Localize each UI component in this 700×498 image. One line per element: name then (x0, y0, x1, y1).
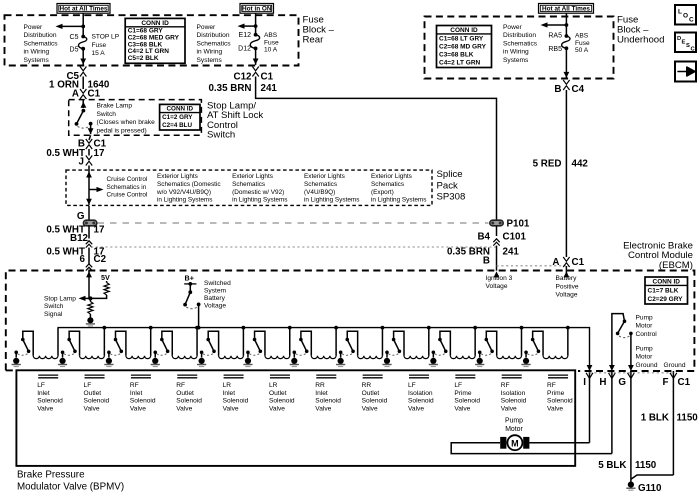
svg-text:A: A (72, 89, 79, 100)
solenoid coil L12 (RF prime) (543, 356, 568, 359)
svg-text:A: A (552, 257, 559, 268)
svg-text:5 RED: 5 RED (533, 159, 562, 170)
svg-text:LR: LR (269, 382, 278, 389)
svg-text:E: E (682, 40, 686, 46)
svg-text:B: B (554, 84, 561, 95)
svg-text:M: M (511, 439, 519, 449)
pump motor control switch S3 (612, 314, 633, 366)
svg-text:F: F (663, 377, 669, 388)
valve symbol LR inlet (224, 374, 244, 376)
svg-text:RF: RF (176, 382, 185, 389)
svg-text:Power: Power (197, 24, 216, 31)
solenoid driver switch Q10 (LF prime) (432, 331, 451, 357)
ground (solenoid RR outlet) (338, 358, 344, 364)
wire 5 RED 442 (565, 90, 567, 257)
wire below P101 (496, 226, 498, 236)
svg-text:RF: RF (501, 382, 510, 389)
svg-text:Pump: Pump (505, 418, 523, 425)
svg-text:C5=2 BLK: C5=2 BLK (128, 55, 159, 62)
fuse F3 value label (575, 33, 590, 55)
svg-text:Distribution: Distribution (503, 32, 536, 39)
solenoid coil L7 (RR inlet) (311, 356, 336, 359)
bus junction node (334, 326, 338, 330)
wire to splice G (88, 206, 90, 220)
svg-text:Outlet: Outlet (84, 390, 102, 397)
valve symbol LR outlet (270, 374, 290, 376)
pump motor label (505, 418, 524, 433)
svg-text:Prime: Prime (547, 390, 565, 397)
svg-text:Distribution: Distribution (24, 32, 57, 39)
wire entering EBCM pin 6 C2 (88, 271, 90, 299)
connector break C12 / C1 (252, 67, 258, 77)
svg-text:Isolation: Isolation (501, 390, 526, 397)
arrow to power distribution schematics (rear right) (242, 25, 256, 27)
svg-text:Valve: Valve (408, 406, 424, 413)
svg-text:in Wiring: in Wiring (503, 49, 529, 56)
valve label RF Inlet Solenoid Valve (130, 382, 156, 412)
svg-text:Systems: Systems (503, 57, 529, 64)
svg-text:Inlet: Inlet (37, 390, 50, 397)
wire 0.35 BRN 241 (upper) (256, 77, 497, 220)
svg-text:Switched: Switched (204, 280, 231, 287)
pull-up resistor R1 (106, 281, 108, 283)
splice pack SP308 label (437, 169, 466, 203)
solenoid coil L4 (RF outlet) (172, 356, 197, 359)
wire fuse to box edge with arrow (82, 49, 84, 65)
svg-text:RR: RR (362, 382, 372, 389)
conn id table stop lamp switch (160, 104, 200, 130)
valve label LF Prime Solenoid Valve (454, 382, 480, 412)
svg-text:C1=7 BLK: C1=7 BLK (648, 288, 679, 295)
solenoid coil L9 (LF isolation) (404, 356, 429, 359)
bus junction node (473, 326, 477, 330)
svg-text:Positive: Positive (556, 283, 579, 290)
ignition 3 voltage label (486, 275, 513, 290)
solenoid driver switch Q3 (RF inlet) (107, 331, 126, 357)
svg-text:CONN ID: CONN ID (653, 278, 681, 285)
svg-text:P101: P101 (507, 219, 530, 230)
svg-text:Exterior Lights: Exterior Lights (232, 173, 273, 180)
svg-text:Modulator Valve (BPMV): Modulator Valve (BPMV) (17, 482, 124, 493)
svg-text:Motor: Motor (636, 323, 654, 330)
wire G pump motor ground (inside EBCM) (630, 333, 632, 366)
pump motor M1 (500, 435, 529, 450)
BPMV box (16, 370, 575, 466)
wire into brake lamp switch (82, 99, 84, 108)
svg-text:D12: D12 (238, 46, 251, 53)
svg-text:Exterior Lights: Exterior Lights (157, 173, 198, 180)
arrow to power distribution (underhood) (545, 24, 566, 26)
svg-text:Power: Power (503, 24, 522, 31)
svg-text:(EBCM): (EBCM) (659, 260, 693, 271)
cruise control schematics text (107, 176, 148, 199)
svg-text:Schematics: Schematics (232, 181, 265, 188)
wire fuse F3 to box edge (565, 48, 567, 78)
wire from hot in ON to fuse E12 (255, 13, 257, 34)
svg-text:Solenoid: Solenoid (408, 398, 434, 405)
svg-text:B: B (483, 255, 490, 266)
valve symbol RR inlet (316, 374, 336, 376)
solenoid driver switch Q1 (LF inlet) (14, 331, 33, 357)
svg-text:17: 17 (94, 225, 105, 236)
svg-text:O: O (683, 13, 688, 20)
solenoid driver switch Q2 (LF outlet) (61, 331, 80, 357)
arrow to power distribution schematics (60, 25, 83, 27)
solenoid coil L11 (RF isolation) (497, 356, 522, 359)
conn id table EBCM (645, 277, 688, 304)
svg-text:RA5: RA5 (548, 33, 562, 40)
svg-text:B12: B12 (70, 233, 89, 244)
connector break 6/C2 (86, 264, 92, 271)
wire hot to fuse RA5 (565, 13, 567, 36)
solenoid coil L3 (RF inlet) (126, 356, 151, 359)
ground (solenoid RF isolation) (477, 358, 483, 364)
svg-text:in Wiring: in Wiring (197, 49, 223, 56)
svg-text:I: I (583, 377, 586, 388)
power distribution reference text (underhood) (503, 24, 538, 64)
svg-text:CONN ID: CONN ID (141, 20, 169, 27)
svg-text:241: 241 (503, 247, 520, 258)
connector break A / C1 (563, 257, 569, 267)
svg-text:Splice: Splice (437, 169, 463, 180)
svg-text:Valve: Valve (362, 406, 378, 413)
solenoid driver switch Q5 (LR inlet) (200, 331, 219, 357)
ground (solenoid LF outlet) (59, 358, 65, 364)
svg-text:Switch: Switch (44, 303, 64, 310)
svg-text:Schematics (Domestic: Schematics (Domestic (157, 181, 221, 188)
svg-text:Schematics: Schematics (24, 40, 59, 47)
bus junction node (195, 326, 199, 330)
svg-text:LF: LF (454, 382, 462, 389)
ground (solenoid LR inlet) (199, 358, 205, 364)
switched battery switch S2 (183, 282, 200, 328)
battery positive voltage label (556, 275, 579, 298)
node branch to power distribution (81, 25, 85, 29)
svg-text:Valve: Valve (547, 406, 563, 413)
svg-text:1150: 1150 (635, 460, 657, 471)
ground G110 (628, 482, 634, 488)
svg-text:Outlet: Outlet (362, 390, 380, 397)
bus junction node (102, 326, 106, 330)
svg-text:Outlet: Outlet (176, 390, 194, 397)
solenoid driver switch Q6 (LR outlet) (246, 331, 265, 357)
valve label LF Outlet Solenoid Valve (84, 382, 110, 412)
svg-text:Pump: Pump (636, 314, 654, 321)
svg-text:Valve: Valve (269, 406, 285, 413)
svg-text:50 A: 50 A (575, 47, 589, 54)
svg-text:5 BLK: 5 BLK (598, 460, 626, 471)
EBCM dashed border (6, 271, 695, 372)
node branch (254, 24, 258, 28)
svg-text:Valve: Valve (223, 406, 239, 413)
wire through splice box (88, 174, 90, 205)
svg-text:G110: G110 (638, 483, 662, 493)
wire F joins G wire (631, 475, 674, 479)
solenoid coil L2 (LF outlet) (80, 356, 105, 359)
svg-text:Valve: Valve (84, 406, 100, 413)
connector break pin H (611, 371, 613, 454)
svg-text:Schematics: Schematics (371, 181, 404, 188)
connector break C5 (80, 67, 86, 77)
svg-text:Ground: Ground (664, 362, 686, 369)
ground (solenoid LF inlet) (13, 358, 19, 364)
svg-text:Battery: Battery (556, 275, 578, 282)
fuse F2 ABS 10A (250, 33, 259, 51)
exterior lights schematics text 3 (304, 173, 359, 203)
svg-text:C101: C101 (503, 232, 527, 243)
bus junction node (381, 326, 385, 330)
svg-text:Distribution: Distribution (197, 32, 230, 39)
hot at all times label (underhood) (539, 4, 594, 14)
valve label LR Inlet Solenoid Valve (223, 382, 249, 412)
bus junction node (242, 326, 246, 330)
LOC icon (675, 5, 696, 25)
svg-text:6: 6 (80, 254, 86, 265)
fuse F2 value label (264, 32, 279, 54)
svg-text:Underhood: Underhood (617, 35, 664, 46)
svg-text:D5: D5 (70, 47, 79, 54)
svg-text:Exterior Lights: Exterior Lights (304, 173, 345, 180)
brake pressure modulator valve label (17, 470, 124, 493)
valve label LR Outlet Solenoid Valve (269, 382, 295, 412)
bus junction node (520, 326, 524, 330)
bus junction node (427, 326, 431, 330)
svg-text:Voltage: Voltage (486, 283, 508, 290)
svg-text:in Lighting Systems: in Lighting Systems (157, 197, 212, 204)
wire entering EBCM battery pin A (565, 266, 567, 277)
svg-text:5V: 5V (101, 273, 110, 282)
svg-text:CONN ID: CONN ID (167, 106, 194, 113)
svg-text:Battery: Battery (204, 295, 226, 302)
svg-text:Fuse: Fuse (575, 40, 590, 47)
svg-text:C4=2 LT GRN: C4=2 LT GRN (439, 59, 481, 66)
svg-text:C1: C1 (678, 377, 691, 388)
pump motor control text (636, 314, 658, 338)
svg-text:Control: Control (636, 331, 658, 338)
wire motor to pin I (529, 442, 589, 444)
svg-text:Solenoid: Solenoid (37, 398, 63, 405)
stop lamp / AT shift lock control switch label (207, 101, 263, 141)
svg-text:G: G (618, 377, 626, 388)
svg-text:Valve: Valve (37, 406, 53, 413)
valve label RR Outlet Solenoid Valve (362, 382, 388, 412)
fuse F1 STOP LP 15A (78, 35, 86, 51)
svg-text:Brake Lamp: Brake Lamp (97, 103, 133, 110)
valve label RF Outlet Solenoid Valve (176, 382, 202, 412)
ground (solenoid LF isolation) (384, 358, 390, 364)
valve symbol RF prime (548, 374, 568, 376)
connector break B / C4 (563, 80, 569, 90)
svg-text:Signal: Signal (44, 311, 63, 318)
DESC icon (675, 33, 696, 53)
ground (solenoid RR inlet) (291, 358, 297, 364)
svg-text:Systems: Systems (197, 57, 223, 64)
svg-text:C2=68 MD GRY: C2=68 MD GRY (439, 44, 487, 51)
svg-text:Schematics in: Schematics in (107, 184, 147, 191)
svg-text:Brake Pressure: Brake Pressure (17, 470, 85, 481)
solenoid driver switch Q8 (RR outlet) (339, 331, 358, 357)
svg-text:Solenoid: Solenoid (269, 398, 295, 405)
valve label LF Isolation Solenoid Valve (408, 382, 434, 412)
wire entering EBCM ignition pin B (494, 271, 500, 277)
ground (solenoid RF inlet) (106, 358, 112, 364)
svg-text:Valve: Valve (176, 406, 192, 413)
svg-text:ABS: ABS (575, 33, 589, 40)
svg-text:Pack: Pack (437, 180, 459, 191)
svg-text:Hot at All Times: Hot at All Times (542, 5, 590, 12)
solenoid coil L5 (LR inlet) (219, 356, 244, 359)
fuse block underhood dashed box (425, 17, 614, 79)
node stop lamp signal (88, 296, 92, 300)
valve label LF Inlet Solenoid Valve (37, 382, 63, 412)
solenoid coil L1 (LF inlet) (33, 356, 58, 359)
solenoid coil L10 (LF prime) (450, 356, 475, 359)
bus junction node (566, 326, 570, 330)
svg-text:Schematics: Schematics (503, 40, 538, 47)
bus junction node (288, 326, 292, 330)
arrow pin I exit (587, 365, 593, 371)
svg-text:w/o V92/V4U/B9Q): w/o V92/V4U/B9Q) (156, 189, 211, 196)
svg-text:C1: C1 (572, 257, 585, 268)
svg-text:(Closes when brake: (Closes when brake (97, 119, 156, 126)
svg-text:Solenoid: Solenoid (84, 398, 110, 405)
svg-text:Schematics: Schematics (304, 181, 337, 188)
svg-text:10 A: 10 A (264, 47, 278, 54)
wire into splice pack box (88, 166, 90, 175)
solenoid driver switch Q4 (RF outlet) (153, 331, 172, 357)
svg-text:Outlet: Outlet (269, 390, 287, 397)
svg-text:Fuse: Fuse (264, 39, 279, 46)
hot in ON label (240, 4, 274, 14)
solenoid driver switch Q11 (RF isolation) (478, 331, 497, 357)
hot at all times label (left) (57, 4, 110, 14)
connector break pin G (630, 371, 632, 482)
wire fuse F2 to box edge (255, 48, 257, 65)
svg-text:C2=29 GRY: C2=29 GRY (648, 296, 684, 303)
svg-text:Valve: Valve (315, 406, 331, 413)
svg-text:Exterior Lights: Exterior Lights (371, 173, 412, 180)
svg-text:Schematics: Schematics (197, 40, 232, 47)
arrow stop lamp switch signal (83, 297, 90, 299)
valve symbol RF isolation (502, 374, 522, 376)
valve symbol LF inlet (38, 374, 58, 376)
svg-text:(Domestic w/ V92): (Domestic w/ V92) (232, 189, 284, 196)
solenoid driver switch Q12 (RF prime) (524, 331, 543, 357)
conn id table fuse block rear (125, 18, 185, 63)
svg-text:C1=2 GRY: C1=2 GRY (162, 114, 193, 121)
svg-text:SP308: SP308 (437, 192, 466, 203)
svg-text:C1=68 LT GRY: C1=68 LT GRY (439, 36, 484, 43)
right arrow icon (675, 62, 696, 82)
solenoid coil L6 (LR outlet) (265, 356, 290, 359)
connector break A / C1 (80, 89, 86, 99)
pull-down resistor R2 (89, 298, 91, 301)
connector break B / C1 (89, 135, 91, 140)
pin letters I H G F C1 (583, 377, 690, 388)
valve symbol LF outlet (85, 374, 105, 376)
svg-text:STOP LP: STOP LP (92, 34, 120, 41)
dashed net C1 pins B-A (497, 265, 567, 267)
svg-text:1150: 1150 (677, 413, 699, 424)
brake lamp switch S1 (75, 109, 94, 135)
wire 0.35 BRN 241 (lower) (496, 246, 498, 271)
svg-text:L: L (678, 9, 682, 16)
svg-text:LF: LF (37, 382, 45, 389)
svg-text:ABS: ABS (264, 32, 278, 39)
conn id table underhood (437, 26, 492, 68)
svg-text:RF: RF (547, 382, 556, 389)
svg-text:C: C (689, 17, 694, 24)
svg-text:Pump: Pump (636, 345, 654, 352)
svg-text:15 A: 15 A (92, 50, 106, 57)
fuse block rear label (303, 15, 335, 46)
svg-text:Solenoid: Solenoid (223, 398, 249, 405)
electronic brake control module label (623, 241, 693, 271)
arrow to cruise control schematics (89, 189, 98, 191)
svg-text:Solenoid: Solenoid (362, 398, 388, 405)
svg-text:Switch: Switch (97, 111, 117, 118)
valve symbol RF outlet (177, 374, 197, 376)
svg-text:Prime: Prime (454, 390, 472, 397)
svg-text:C2=4 BLU: C2=4 BLU (162, 122, 192, 129)
exterior lights schematics text 1 (156, 173, 221, 203)
valve symbol LF isolation (409, 374, 429, 376)
bus junction node (B+ feed) (197, 326, 201, 330)
svg-text:Solenoid: Solenoid (176, 398, 202, 405)
ground (solenoid RF prime) (523, 358, 529, 364)
svg-text:Valve: Valve (130, 406, 146, 413)
svg-text:J: J (79, 157, 84, 168)
valve symbol RF inlet (131, 374, 151, 376)
svg-text:Hot at All Times: Hot at All Times (60, 5, 108, 12)
ground (solenoid LR outlet) (245, 358, 251, 364)
svg-text:Solenoid: Solenoid (130, 398, 156, 405)
svg-text:C1: C1 (88, 89, 101, 100)
svg-text:CONN ID: CONN ID (450, 27, 478, 34)
svg-text:Inlet: Inlet (315, 390, 328, 397)
svg-text:Solenoid: Solenoid (315, 398, 341, 405)
exterior lights schematics text 2 (232, 173, 287, 203)
dashed net C1 pins I-H-G-F (590, 372, 674, 374)
wire from hot at all times to fuse C5 (82, 13, 84, 36)
brake lamp switch dashed box (69, 100, 202, 136)
svg-text:Motor: Motor (636, 354, 654, 361)
svg-text:1 BLK: 1 BLK (641, 413, 669, 424)
svg-text:E12: E12 (239, 32, 252, 39)
svg-text:Valve: Valve (501, 406, 517, 413)
svg-text:S: S (686, 43, 690, 49)
svg-text:Motor: Motor (505, 426, 523, 433)
connector break J (86, 156, 92, 166)
wire 0.5 WHT 17 (lower) (88, 248, 90, 265)
svg-text:C1: C1 (261, 71, 274, 82)
solenoid supply bus (58, 328, 590, 366)
svg-text:System: System (204, 288, 226, 295)
svg-text:LF: LF (408, 382, 416, 389)
connector break pin I (589, 371, 591, 443)
svg-text:Rear: Rear (303, 35, 325, 46)
svg-text:Solenoid: Solenoid (547, 398, 573, 405)
fuse block rear dashed box (5, 15, 299, 65)
ground (solenoid LF prime) (430, 358, 436, 364)
valve symbol LF prime (455, 374, 475, 376)
svg-text:C12: C12 (234, 71, 253, 82)
svg-text:(V4U/B9Q): (V4U/B9Q) (304, 189, 335, 196)
svg-text:Solenoid: Solenoid (454, 398, 480, 405)
svg-text:Inlet: Inlet (130, 390, 143, 397)
power distribution reference text (rear right) (197, 24, 232, 64)
svg-text:H: H (599, 377, 606, 388)
